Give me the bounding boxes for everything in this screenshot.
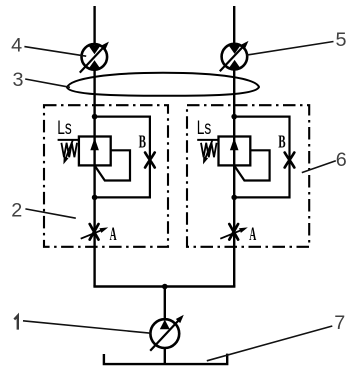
leader line 2	[25, 209, 75, 218]
junction dot top (right module)	[231, 114, 237, 120]
motor M4 circle (item 4)	[82, 44, 108, 70]
motor M4 bottom triangle	[88, 60, 100, 69]
junction dot manifold	[162, 284, 168, 290]
throttle A adjust arrow (right module)	[220, 229, 244, 239]
wire right main line	[233, 69, 235, 286]
pump P1 triangle	[160, 320, 170, 330]
spring adjust arrow (left module)	[65, 140, 73, 161]
throttle A variable orifice X (right module)	[229, 224, 238, 240]
control module enclosure right (item 6)	[187, 105, 309, 247]
wire pilot feedback (right module)	[235, 150, 270, 180]
wire bottom manifold	[95, 285, 235, 286]
junction dot top (left module)	[92, 114, 98, 120]
ellipse drum item 3	[67, 73, 259, 96]
svg-text:7: 7	[334, 312, 345, 334]
svg-text:2: 2	[11, 200, 22, 222]
svg-text:Ls: Ls	[57, 116, 71, 138]
control module enclosure left (item 2)	[44, 105, 168, 247]
svg-text:3: 3	[13, 69, 24, 91]
spring (left module)	[61, 143, 77, 157]
port B plug X (left module)	[145, 153, 155, 168]
svg-text:B: B	[278, 133, 285, 152]
wire supply right top	[233, 6, 235, 44]
pump P1 circle (item 1)	[150, 319, 179, 348]
svg-text:5: 5	[336, 29, 347, 51]
leader line 5	[247, 42, 334, 56]
throttle A variable orifice X (left module)	[90, 224, 99, 240]
tank reservoir (item 7)	[104, 354, 227, 365]
junction dot bottom (left module)	[92, 195, 98, 201]
wire Ls pilot line (left module)	[58, 139, 79, 141]
motor M5 circle (item 5)	[222, 44, 248, 70]
pressure compensator valve body (right module)	[219, 137, 251, 166]
flow arrow in valve (right module)	[230, 138, 239, 150]
wire pilot feedback (left module)	[95, 150, 130, 180]
wire pilot loop (right module)	[234, 117, 289, 198]
motor M5 top triangle	[228, 45, 240, 54]
flow arrow in valve (left module)	[90, 138, 99, 150]
leader line 4	[24, 47, 86, 57]
svg-text:A: A	[249, 225, 256, 245]
wire pump to tank	[164, 348, 166, 365]
svg-text:6: 6	[336, 149, 347, 171]
svg-text:A: A	[110, 225, 117, 245]
svg-text:4: 4	[11, 35, 22, 57]
wire supply left top	[93, 6, 95, 44]
svg-text:B: B	[139, 133, 146, 152]
label 1	[14, 316, 17, 330]
pressure compensator valve body (left module)	[79, 137, 111, 166]
throttle A adjust arrow (left module)	[81, 229, 105, 239]
spring (right module)	[201, 143, 217, 157]
wire manifold to pump	[164, 287, 166, 320]
leader line 3	[25, 79, 70, 87]
leader line 7	[207, 326, 332, 361]
spring adjust arrow (right module)	[204, 140, 212, 161]
junction dot bottom (right module)	[231, 195, 237, 201]
wire Ls pilot line (right module)	[197, 139, 218, 141]
leader line 1	[23, 321, 151, 333]
svg-text:Ls: Ls	[197, 116, 211, 138]
motor M5 variable arrow	[220, 43, 246, 71]
wire left main line	[93, 70, 95, 287]
wire pilot loop (left module)	[95, 117, 150, 198]
leader line 6	[302, 161, 336, 173]
motor M4 top triangle	[88, 45, 100, 54]
port B plug X (right module)	[285, 153, 295, 168]
motor M4 variable arrow	[80, 44, 107, 73]
pump P1 variable arrow	[150, 317, 181, 350]
motor M5 bottom triangle	[228, 60, 240, 69]
